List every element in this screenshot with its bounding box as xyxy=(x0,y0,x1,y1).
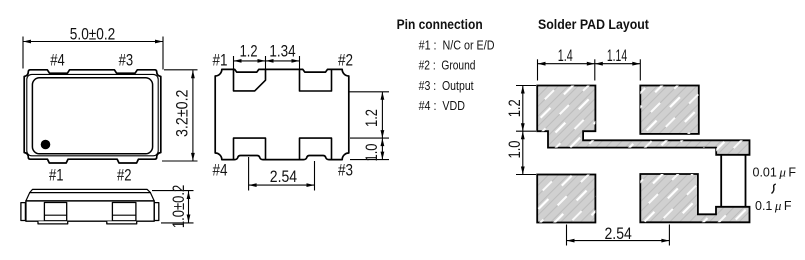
dimension 1.2 (bottom view top) xyxy=(234,56,300,80)
right terminal (side view) xyxy=(154,203,159,221)
svg-text:#1: #1 xyxy=(49,165,64,184)
bottom tab right (side view) xyxy=(107,221,137,224)
dimension 3.2±0.2 xyxy=(162,70,198,161)
pad TR (solder layout) xyxy=(640,86,699,134)
svg-text:Pin connection: Pin connection xyxy=(397,17,483,32)
svg-text:1.34: 1.34 xyxy=(269,42,295,61)
pad divider lines (side view) xyxy=(44,214,66,216)
svg-text:#2 : Ground: #2 : Ground xyxy=(419,59,476,73)
pad #3 (bottom view) xyxy=(300,138,332,160)
pad BR with ground strip (solder layout) xyxy=(640,174,749,222)
dimension 1.0±0.2 xyxy=(152,191,194,223)
pin1 index dot xyxy=(41,140,51,150)
svg-text:1.2: 1.2 xyxy=(505,99,524,117)
lid band (side view) xyxy=(26,193,154,201)
svg-text:#3: #3 xyxy=(119,50,134,69)
svg-text:Solder PAD Layout: Solder PAD Layout xyxy=(538,17,649,32)
dimension 5.0±0.2 xyxy=(23,37,163,70)
pad #1 (bottom view, chamfered) xyxy=(234,69,266,91)
capacitor column lines xyxy=(720,155,722,207)
right pad (side view) xyxy=(112,203,135,221)
svg-text:#3 : Output: #3 : Output xyxy=(419,79,474,93)
svg-text:1.14: 1.14 xyxy=(607,46,627,65)
svg-text:#2: #2 xyxy=(338,51,353,70)
svg-text:0.01 μ F: 0.01 μ F xyxy=(753,164,797,179)
range squiggle xyxy=(772,184,776,194)
package seal-ring contour (top view) xyxy=(27,74,158,155)
svg-text:#1 : N/C or E/D: #1 : N/C or E/D xyxy=(419,39,495,53)
package outline (top view) xyxy=(24,70,161,163)
left pad (side view) xyxy=(44,203,66,221)
svg-text:1.0: 1.0 xyxy=(505,141,524,159)
svg-text:0.1 μ F: 0.1 μ F xyxy=(755,198,792,213)
svg-text:1.0: 1.0 xyxy=(362,144,381,162)
pad TL with foot and VDD trace (solder layout) xyxy=(537,86,749,155)
package outline (bottom view) xyxy=(215,69,349,159)
svg-text:2.54: 2.54 xyxy=(270,167,297,186)
bottom tab left (side view) xyxy=(38,221,68,224)
svg-text:3.2±0.2: 3.2±0.2 xyxy=(172,90,191,138)
svg-text:#4: #4 xyxy=(50,50,65,69)
svg-text:1.2: 1.2 xyxy=(240,42,258,61)
svg-text:1.0±0.2: 1.0±0.2 xyxy=(169,185,188,228)
package cavity (top view) xyxy=(32,78,152,154)
dimension 1.4 / 1.14 (solder layout top) xyxy=(538,59,641,80)
svg-text:#4: #4 xyxy=(213,160,228,179)
dimension 2.54 (bottom view) xyxy=(249,157,315,191)
svg-text:#3: #3 xyxy=(338,160,353,179)
lid top (side view) xyxy=(30,189,151,192)
dimension 1.2 / 1.0 (solder layout left) xyxy=(516,86,536,175)
dimension 2.54 (solder layout) xyxy=(567,225,670,246)
body (side view) xyxy=(26,201,154,221)
svg-text:5.0±0.2: 5.0±0.2 xyxy=(70,25,116,44)
svg-text:1.2: 1.2 xyxy=(362,109,381,127)
svg-text:#2: #2 xyxy=(117,165,132,184)
svg-text:#4 : VDD: #4 : VDD xyxy=(419,99,465,113)
pad #2 (bottom view) xyxy=(300,69,332,91)
svg-text:1.4: 1.4 xyxy=(558,46,573,65)
pad BL (solder layout) xyxy=(537,175,595,223)
left terminal (side view) xyxy=(21,203,26,221)
svg-text:#1: #1 xyxy=(213,51,228,70)
dimension 1.2 / 1.0 (bottom view right) xyxy=(349,92,389,160)
pad #4 (bottom view) xyxy=(234,138,266,160)
svg-text:2.54: 2.54 xyxy=(605,224,632,243)
